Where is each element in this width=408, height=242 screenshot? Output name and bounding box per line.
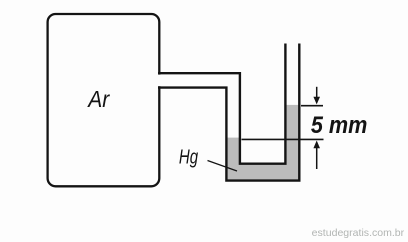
bulb opening gap bbox=[157, 75, 162, 87]
tube inner wall: top of connecting tube, left-arm inner wall, inner bottom, right-arm inner wall bbox=[158, 44, 285, 164]
value label 5 mm bbox=[311, 112, 368, 139]
mercury Hg fill bottom channel bbox=[228, 165, 300, 181]
watermark estudegratis.com.br bbox=[312, 227, 405, 239]
mercury Hg fill right arm bbox=[285, 105, 298, 180]
svg-text:Hg: Hg bbox=[179, 146, 199, 168]
dimension arrow down bbox=[313, 87, 320, 105]
mercury Hg fill left arm bbox=[228, 138, 242, 181]
lower mercury level reference line bbox=[242, 138, 324, 140]
label Hg bbox=[179, 146, 199, 168]
tube outer wall: bottom of connecting tube, left-arm outer wall, outer bottom, right-arm outer wall bbox=[158, 44, 299, 181]
gas bulb Ar bbox=[48, 14, 160, 186]
svg-text:5 mm: 5 mm bbox=[311, 112, 368, 139]
label Ar bbox=[86, 86, 110, 112]
leader line from Hg label to mercury bbox=[208, 161, 238, 172]
svg-text:Ar: Ar bbox=[86, 86, 110, 112]
dimension arrow up bbox=[313, 141, 320, 170]
upper mercury level tick line bbox=[301, 105, 323, 107]
svg-text:estudegratis.com.br: estudegratis.com.br bbox=[312, 227, 405, 239]
